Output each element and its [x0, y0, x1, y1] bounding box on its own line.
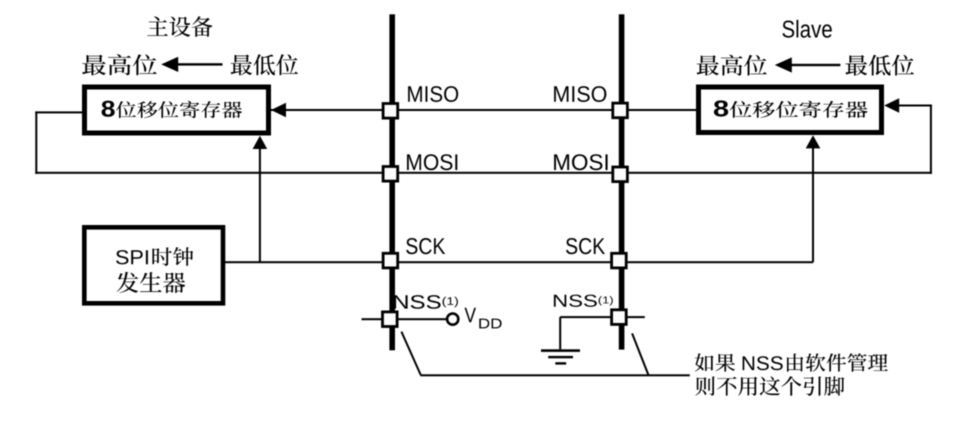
label Slave [782, 20, 831, 38]
master NSS stub wire [362, 318, 384, 320]
master MISO label [408, 86, 458, 102]
slave MISO pin [613, 103, 628, 118]
VDD circle [447, 314, 458, 325]
SCK wire [225, 261, 813, 263]
arrow into master register (MISO) [271, 103, 286, 117]
slave SCK branch wire [812, 148, 814, 262]
slave NSS label [554, 295, 613, 307]
master shift direction arrow [161, 57, 178, 72]
slave LSB label [846, 55, 915, 76]
master LSB label [231, 54, 298, 75]
master SCK pin [383, 253, 398, 268]
master MOSI pin [383, 167, 398, 182]
slave MOSI label [554, 154, 608, 170]
arrow into master register bottom (SCK branch) [253, 136, 268, 149]
master MSB label [82, 54, 157, 75]
slave NSS wire to ground drop [560, 316, 614, 318]
slave feedback wire vertical [930, 105, 932, 174]
slave feedback wire top [898, 105, 932, 107]
master SCK branch wire [259, 148, 261, 262]
SPI clock generator box [84, 227, 223, 303]
master NSS to VDD wire [397, 318, 447, 320]
SPI clock text line 2 [117, 272, 186, 293]
master feedback wire vertical [35, 111, 37, 173]
slave MSB label [697, 55, 767, 76]
slave SCK label [566, 238, 605, 254]
VDD label V [465, 308, 477, 322]
slave shift direction arrow [775, 57, 792, 72]
slave MOSI pin [613, 167, 628, 182]
master NSS diagonal tick [401, 332, 420, 375]
note text line 1 [695, 353, 888, 371]
slave MISO label [554, 86, 606, 102]
slave 8-bit shift register box [699, 87, 882, 133]
ground symbol [541, 349, 580, 352]
MOSI wire [35, 172, 932, 174]
slave NSS pin [612, 310, 627, 325]
master 8-bit shift register box [85, 87, 269, 133]
master MOSI label [407, 154, 457, 170]
note pointer line [420, 374, 690, 376]
slave register text [714, 100, 868, 118]
master NSS pin [383, 312, 398, 327]
slave SCK pin [612, 253, 627, 268]
slave NSS stub wire [627, 316, 645, 318]
master SCK label [406, 238, 445, 254]
arrow into slave register bottom (SCK branch) [806, 135, 821, 148]
ground drop wire [559, 317, 561, 349]
slave bus line [619, 14, 625, 349]
master MISO feedback wire top [35, 111, 82, 113]
arrow into slave register (from feedback) [884, 98, 899, 112]
master bus line [389, 14, 395, 350]
MISO wire [271, 109, 696, 111]
slave NSS diagonal tick [632, 333, 648, 374]
SPI clock text line 1 [116, 247, 193, 266]
master register text [102, 101, 243, 119]
label master device [147, 16, 213, 37]
note text line 2 [695, 376, 844, 396]
VDD label DD subscript [479, 319, 501, 329]
master NSS label [394, 295, 458, 309]
master MISO pin [383, 104, 398, 119]
